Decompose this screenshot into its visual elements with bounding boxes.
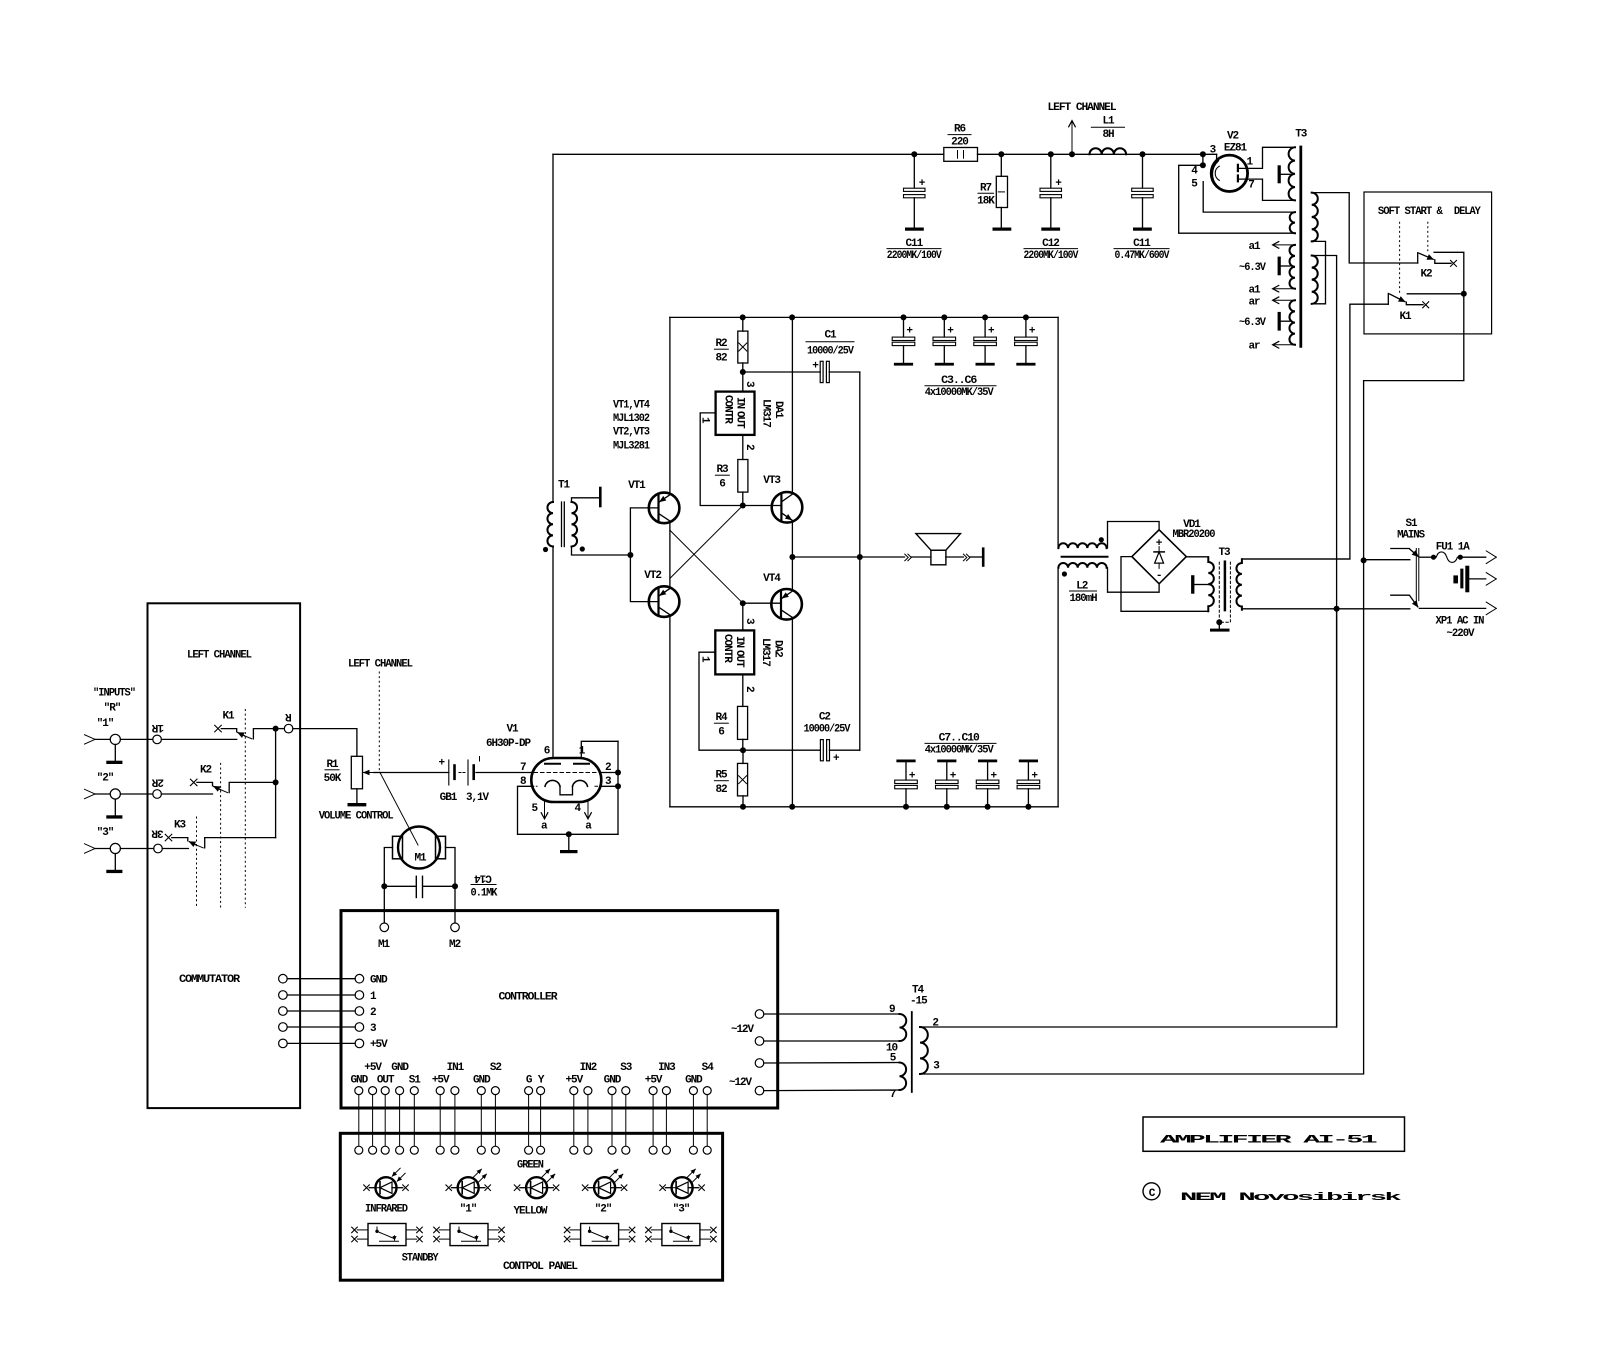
svg-text:LM317: LM317 — [759, 638, 771, 666]
wire: amp negative rail (bottom of inner box) — [670, 806, 1058, 808]
svg-text:50K: 50K — [324, 773, 342, 785]
wire: T3 220V winding top to S1 (drawn at left) — [1242, 558, 1350, 560]
wire: VT3-VT4 output node — [789, 521, 795, 590]
ground: protective earth pin of XP1 — [1453, 566, 1485, 593]
svg-text:K1: K1 — [1399, 311, 1412, 323]
svg-text:8H: 8H — [1102, 129, 1114, 141]
svg-text:T3: T3 — [1218, 547, 1231, 559]
svg-text:R4: R4 — [715, 712, 728, 724]
svg-text:2200MK/100V: 2200MK/100V — [1024, 250, 1079, 262]
svg-text:IN: IN — [733, 636, 745, 648]
LED infrared receiver — [364, 1168, 409, 1215]
wire: commutator R output to R1 top — [293, 729, 357, 757]
svg-text:GND: GND — [391, 1062, 409, 1074]
wire: S1 top pole junction down to T4 pin 3 — [920, 557, 1367, 1074]
svg-text:2: 2 — [743, 444, 755, 450]
svg-text:S1: S1 — [1405, 518, 1418, 530]
connector 3R — [120, 827, 163, 853]
svg-text:LM317: LM317 — [760, 399, 772, 427]
svg-text:~6.3V: ~6.3V — [1239, 317, 1266, 329]
svg-text:VT2,VT3: VT2,VT3 — [613, 427, 650, 439]
wire: T1 primary bottom to V1 anode pin 6 — [552, 547, 554, 759]
wire: VD1 AC right to T3 primary top — [1186, 556, 1208, 558]
relay contact K2 — [1400, 222, 1457, 293]
wire: input 3 to K3 — [162, 848, 188, 850]
svg-text:NEM Novosibirsk: NEM Novosibirsk — [1180, 1192, 1403, 1204]
triode V1 6H30P-DP — [486, 724, 612, 803]
svg-text:a1: a1 — [1248, 285, 1261, 297]
svg-text:T1: T1 — [558, 480, 571, 492]
svg-text:GND: GND — [685, 1075, 703, 1087]
svg-text:R7: R7 — [980, 183, 992, 195]
ground: input "2" ground — [106, 799, 122, 819]
inductor L2 180mH (twin choke) — [1058, 537, 1107, 605]
svg-text:"R": "R" — [104, 703, 121, 715]
svg-text:IN: IN — [734, 397, 746, 409]
node: VT2 emitter rail junction — [789, 804, 795, 810]
wire: DA1 CONTR pin 1 loop to VT3 base node — [699, 413, 743, 506]
svg-text:180mH: 180mH — [1070, 593, 1097, 605]
resistor R4 6 — [714, 674, 755, 750]
wire: R-A top to relay K2 input — [1312, 193, 1418, 263]
svg-text:S2: S2 — [490, 1062, 502, 1074]
wire: K1 input down to T3 mains primary top — [1242, 304, 1388, 559]
wire: input 1 to K1 — [161, 738, 236, 740]
transistor VT3 (MJL3281) — [763, 475, 802, 523]
connector: input "2" plug — [85, 773, 121, 800]
transformer T3 winding W3 (6.3V heater left) — [1239, 241, 1295, 297]
wire: V1 cathode pins 5,4 arrows — [531, 802, 592, 833]
LED "1" — [446, 1169, 491, 1215]
fuse FU1 1A — [1419, 542, 1485, 563]
svg-text:220: 220 — [951, 137, 968, 149]
svg-text:0.47MK/600V: 0.47MK/600V — [1115, 250, 1170, 262]
svg-text:+5V: +5V — [565, 1075, 583, 1087]
connector XP1 AC IN ~220V — [1419, 551, 1496, 640]
svg-text:AMPLIFIER AI-51: AMPLIFIER AI-51 — [1160, 1135, 1379, 1147]
resistor R3 6 — [715, 435, 755, 506]
ground: V1 cathode circuit ground — [560, 831, 578, 853]
svg-text:-15: -15 — [910, 996, 928, 1008]
wire: V1 pin 8 loop to cathode ground — [518, 786, 619, 834]
transformer T3 220V winding (right) — [1236, 559, 1241, 610]
connector: controller bottom pin row — [355, 1087, 711, 1095]
op-amp regulator DA1 LM317 — [716, 392, 784, 435]
svg-text:+5V: +5V — [364, 1062, 382, 1074]
relay contact K3 (commutator) — [165, 817, 275, 907]
svg-text:M2: M2 — [449, 939, 461, 951]
svg-text:"3": "3" — [673, 1203, 690, 1215]
svg-text:S3: S3 — [620, 1062, 633, 1074]
wire: inner box right edge (bottom section) — [1057, 568, 1059, 807]
svg-text:GND: GND — [370, 975, 388, 987]
capacitors C3..C6 4x10000MK/35V — [892, 314, 1037, 398]
svg-text:2: 2 — [743, 686, 755, 692]
svg-text:V2: V2 — [1227, 131, 1239, 143]
svg-text:4x10000MK/35V: 4x10000MK/35V — [925, 387, 994, 399]
svg-text:82: 82 — [715, 353, 727, 365]
capacitor C11 0.47MK/600V — [1114, 151, 1170, 262]
wire: controller to control panel links — [359, 1095, 707, 1146]
svg-text:YELLOW: YELLOW — [514, 1206, 548, 1218]
label: NEM Novosibirsk copyright — [1143, 1183, 1403, 1204]
wire: cross-coupling diagonal B (VT4 base to VT1/VT2 node) — [670, 530, 743, 603]
svg-text:"INPUTS": "INPUTS" — [93, 688, 135, 700]
LED green/yellow — [514, 1160, 559, 1218]
wire: input 2 to K2 — [161, 793, 212, 795]
connector 1R — [120, 721, 164, 744]
transformer T3 mains primary winding (left) — [1191, 547, 1231, 612]
resistor R6 220 — [944, 124, 978, 162]
svg-text:R2: R2 — [715, 338, 727, 350]
resistor R5 82 (with cross) — [714, 750, 747, 810]
relay contact K1 (commutator) — [215, 710, 275, 908]
svg-text:GND: GND — [473, 1075, 491, 1087]
node: R4/R5/C2 junction — [740, 747, 746, 753]
wire: VT1 collector up to + rail (inner box left edge) — [669, 317, 671, 493]
wire: R-A bottom to R-B bottom (series) — [1312, 241, 1326, 303]
wire: K1/K2 common output — [1364, 252, 1467, 560]
speaker symbol — [905, 534, 985, 567]
svg-text:6H30P-DP: 6H30P-DP — [486, 738, 531, 750]
wire: VT1/VT2 common base line to T1 secondary — [627, 508, 658, 602]
svg-text:6: 6 — [544, 746, 550, 758]
svg-text:VT2: VT2 — [644, 570, 661, 582]
svg-text:2: 2 — [932, 1017, 938, 1029]
LED "2" — [582, 1169, 627, 1215]
optocoupler switch 4 — [646, 1224, 717, 1246]
svg-text:"1": "1" — [97, 718, 114, 730]
svg-text:C14: C14 — [474, 872, 492, 884]
svg-text:COMMUTATOR: COMMUTATOR — [179, 974, 241, 986]
label: INPUTS R — [93, 688, 135, 715]
connector 2R — [120, 775, 164, 798]
svg-text:GND: GND — [350, 1075, 368, 1087]
block: AMPLIFIER AI-51 title — [1143, 1117, 1405, 1151]
svg-text:~220V: ~220V — [1447, 628, 1475, 640]
svg-text:VT4: VT4 — [763, 573, 781, 585]
wire: V1 pins 2,3 and pin 1 feedback loop — [581, 741, 621, 834]
svg-text:R6: R6 — [954, 124, 966, 136]
block: CONTROLLER box — [341, 911, 778, 1108]
connector: input "1" plug — [85, 718, 121, 745]
LED "3" — [660, 1169, 705, 1215]
relay contact K2 (commutator) — [190, 763, 275, 907]
capacitor C12 2200MK/100V — [1024, 151, 1079, 262]
wire: V2 heater pins 4,5 to T3 winding W2 — [1179, 165, 1295, 233]
svg-text:GND: GND — [604, 1075, 622, 1087]
svg-text:IN1: IN1 — [447, 1062, 465, 1074]
svg-text:OUT: OUT — [734, 411, 746, 429]
svg-text:a1: a1 — [1248, 241, 1261, 253]
rectifier tube V2 EZ81 — [1191, 131, 1254, 192]
svg-text:10000/25V: 10000/25V — [807, 346, 854, 358]
wire: VT4 down to - rail — [791, 618, 793, 807]
ground: T3 screen ground — [1210, 619, 1230, 631]
block: SOFT START & DELAY box — [1364, 192, 1492, 334]
svg-text:K3: K3 — [174, 819, 187, 831]
svg-text:ar: ar — [1248, 297, 1260, 309]
relay contact K1 — [1388, 294, 1428, 324]
optocoupler switch 2 — [434, 1224, 505, 1246]
transformer T3 winding R-B (primary section) — [1312, 256, 1318, 304]
wire: VD1 - output to L2 lower winding — [1108, 568, 1160, 592]
connector: controller right terminals ~12V — [729, 1010, 764, 1095]
battery GB1 3,1V (grid bias) — [380, 757, 531, 805]
svg-text:INFRARED: INFRARED — [365, 1203, 408, 1215]
svg-text:S4: S4 — [702, 1062, 715, 1074]
wire: V2 pin1 to T3 winding W1 top — [1238, 147, 1295, 168]
svg-text:V1: V1 — [506, 724, 519, 736]
capacitor C11 2200MK/100V (first) — [887, 151, 942, 262]
svg-text:R1: R1 — [326, 759, 339, 771]
block: COMMUTATOR box — [148, 603, 301, 1108]
svg-text:S1: S1 — [409, 1075, 422, 1087]
svg-text:MJL3281: MJL3281 — [613, 440, 650, 452]
svg-text:OUT: OUT — [377, 1075, 395, 1087]
capacitors C7..C10 4x10000MK/35V — [895, 733, 1040, 810]
svg-text:82: 82 — [715, 784, 727, 796]
connector: control panel top pin row — [355, 1146, 711, 1154]
svg-text:2R: 2R — [151, 775, 164, 787]
capacitor C14 0.1MK — [384, 872, 498, 900]
svg-text:IN2: IN2 — [580, 1062, 597, 1074]
diode bridge VD1 MBR20200 — [1132, 519, 1215, 584]
svg-text:C2: C2 — [819, 712, 831, 724]
svg-text:DELAY: DELAY — [1454, 206, 1481, 218]
svg-text:"2": "2" — [595, 1203, 612, 1215]
svg-text:3R: 3R — [151, 827, 164, 839]
wire: VD1 AC left loop to T3 primary bottom — [1121, 557, 1208, 612]
svg-text:C1: C1 — [824, 330, 837, 342]
svg-text:CONTR: CONTR — [722, 395, 734, 424]
svg-text:4x10000MK/35V: 4x10000MK/35V — [925, 745, 994, 757]
svg-text:M1: M1 — [378, 939, 391, 951]
capacitor C2 10000/25V — [743, 712, 860, 766]
svg-text:C7..C10: C7..C10 — [939, 733, 979, 745]
svg-text:0.1MK: 0.1MK — [471, 888, 498, 900]
label: LEFT CHANNEL (volume side) with dash line — [348, 659, 413, 771]
wire: amp positive rail (top of inner box) — [670, 316, 1058, 318]
svg-text:SOFT START &: SOFT START & — [1378, 206, 1443, 218]
svg-text:C3..C6: C3..C6 — [941, 375, 976, 387]
wire: output line to speaker — [792, 556, 904, 558]
wire: C1/C2 common to output node — [857, 372, 863, 750]
svg-text:R5: R5 — [715, 770, 728, 782]
svg-text:MAINS: MAINS — [1397, 530, 1425, 542]
wire: DA2 CONTR pin 1 loop to R4/R5 node — [699, 652, 744, 750]
svg-text:LEFT CHANNEL: LEFT CHANNEL — [187, 650, 252, 662]
svg-text:LEFT CHANNEL: LEFT CHANNEL — [1048, 102, 1117, 114]
svg-text:+5V: +5V — [645, 1075, 663, 1087]
transistor VT2 (MJL3281) — [644, 570, 679, 617]
svg-text:DA1: DA1 — [772, 401, 784, 419]
svg-text:2200MK/100V: 2200MK/100V — [887, 250, 942, 262]
svg-text:VT3: VT3 — [763, 475, 781, 487]
svg-text:K1: K1 — [222, 711, 235, 723]
svg-text:STANDBY: STANDBY — [402, 1252, 439, 1264]
wire: VD1 + output to L2 upper winding — [1108, 522, 1160, 548]
wire: T1 secondary top to grid terminal — [572, 488, 601, 506]
wire: T1 secondary bottom to VT base node — [572, 547, 631, 556]
wire: R-B top down to S1 bottom pole and T4 — [1312, 256, 1337, 1028]
connector: controller M1 M2 terminals — [378, 923, 461, 951]
svg-text:VT1,VT4: VT1,VT4 — [613, 400, 650, 412]
wire: mains vertical from T3 R-B / S1 bottom to T4 pin 2 — [920, 609, 1337, 1027]
svg-text:"1": "1" — [460, 1203, 477, 1215]
connector: input "3" plug — [85, 827, 121, 854]
svg-text:R3: R3 — [716, 464, 729, 476]
svg-text:LEFT CHANNEL: LEFT CHANNEL — [348, 659, 413, 671]
transformer T3 winding R-A (soft-start primary section) — [1312, 193, 1318, 242]
svg-text:18K: 18K — [977, 196, 995, 208]
svg-text:VT1: VT1 — [628, 480, 646, 492]
ground: input "1" ground — [106, 745, 122, 765]
resistor R7 18K — [977, 151, 1011, 230]
svg-text:FU1 1A: FU1 1A — [1436, 542, 1470, 554]
wire: B+ supply rail at top — [553, 154, 1217, 160]
transformer T3 core with screen (bottom) — [1219, 562, 1230, 623]
svg-text:CONTROLLER: CONTROLLER — [499, 992, 559, 1004]
svg-text:K2: K2 — [200, 765, 212, 777]
svg-text:~6.3V: ~6.3V — [1239, 262, 1266, 274]
optocoupler switch 3 — [564, 1224, 635, 1246]
wire: VT3 collector up to + rail — [789, 314, 795, 493]
svg-text:GB1: GB1 — [440, 792, 458, 804]
svg-text:GREEN: GREEN — [517, 1160, 543, 1172]
node: VT3 base junction — [740, 503, 782, 509]
svg-text:CONTPOL PANEL: CONTPOL PANEL — [503, 1261, 578, 1273]
wire: B+ rail down to T1 primary — [552, 154, 554, 502]
optocoupler standby switch 1 — [352, 1224, 423, 1246]
wire: motor coupling diagonal — [380, 773, 418, 846]
svg-text:+5V: +5V — [370, 1039, 388, 1051]
connector: controller left terminals GND 1 2 3 +5V — [355, 974, 388, 1051]
transformer T3 winding W1 (HT secondary) — [1278, 147, 1295, 200]
svg-text:M1: M1 — [414, 853, 427, 865]
label: VT1,VT4 MJL1302 VT2,VT3 MJL3281 — [613, 400, 650, 453]
svg-text:1R: 1R — [151, 721, 164, 733]
svg-text:IN3: IN3 — [658, 1062, 676, 1074]
svg-text:6: 6 — [719, 479, 725, 491]
svg-text:ar: ar — [1248, 341, 1260, 353]
op-amp regulator DA2 LM317 — [715, 630, 783, 674]
svg-text:EZ81: EZ81 — [1224, 143, 1248, 155]
svg-text:-: - — [1156, 570, 1162, 582]
wire: controller to T4 primary leads — [764, 1014, 900, 1091]
wire: VT2 emitter down to - rail — [669, 616, 671, 807]
block: CONTPOL PANEL box — [340, 1133, 722, 1280]
transformer T3 core (top) — [1295, 129, 1308, 347]
wire: cross-coupling diagonal A (VT3 base to VT1/VT2 node) — [670, 506, 743, 579]
potentiometer R1 50K VOLUME CONTROL — [319, 756, 394, 822]
motor M1 — [393, 827, 446, 869]
svg-text:MBR20200: MBR20200 — [1173, 529, 1215, 541]
svg-text:VOLUME CONTROL: VOLUME CONTROL — [319, 810, 394, 822]
wire: commutator to controller control lines — [279, 974, 356, 1047]
svg-text:~12V: ~12V — [731, 1024, 754, 1036]
svg-text:T3: T3 — [1295, 129, 1308, 141]
connector R (commutator output) — [279, 710, 293, 733]
wire: motor leads — [381, 848, 458, 923]
svg-text:7: 7 — [1248, 180, 1254, 192]
ground: input "3" ground — [106, 854, 122, 874]
label: controller pin names — [350, 1062, 714, 1087]
inductor L1 8H — [1090, 116, 1127, 155]
capacitor C1 10000/25V — [743, 330, 860, 383]
transistor VT1 (MJL1302) — [628, 480, 679, 523]
transformer T3 winding W4 (6.3V heater right) — [1239, 297, 1295, 353]
svg-text:"2": "2" — [97, 773, 114, 785]
switch S1 MAINS (double pole) — [1242, 518, 1426, 612]
wire: V2 pin7 to T3 winding W1 bottom — [1238, 179, 1295, 200]
svg-text:L1: L1 — [1102, 116, 1115, 128]
wire: inner box right edge (top section) — [1057, 317, 1059, 548]
svg-text:3,1V: 3,1V — [466, 792, 489, 804]
resistor R2 82 (with cross) — [714, 314, 747, 372]
svg-text:2: 2 — [370, 1007, 376, 1019]
svg-text:+5V: +5V — [432, 1075, 450, 1087]
transformer T4 -15 — [886, 985, 940, 1101]
node: VT4 base junction — [740, 600, 781, 630]
svg-text:K2: K2 — [1420, 269, 1432, 281]
wire: K1/K2/K3 output bus — [273, 726, 279, 838]
svg-text:10000/25V: 10000/25V — [804, 724, 851, 736]
wire: VT1-VT2 interconnect — [669, 522, 671, 588]
svg-text:DA2: DA2 — [772, 640, 784, 657]
svg-text:CONTR: CONTR — [721, 634, 733, 663]
transistor VT4 (MJL1302) — [763, 573, 802, 620]
node: DA1 IN junction with C1 — [740, 369, 755, 392]
svg-text:MJL1302: MJL1302 — [613, 413, 649, 425]
transformer T1 — [543, 480, 585, 553]
node: LEFT CHANNEL arrow — [1048, 102, 1117, 157]
transformer T3 winding W2 (V2 heater) — [1290, 212, 1295, 233]
svg-text:XP1 AC IN: XP1 AC IN — [1436, 616, 1484, 628]
svg-text:"3": "3" — [97, 827, 114, 839]
svg-text:OUT: OUT — [733, 650, 745, 668]
svg-text:~12V: ~12V — [729, 1077, 752, 1089]
svg-text:6: 6 — [718, 727, 724, 739]
